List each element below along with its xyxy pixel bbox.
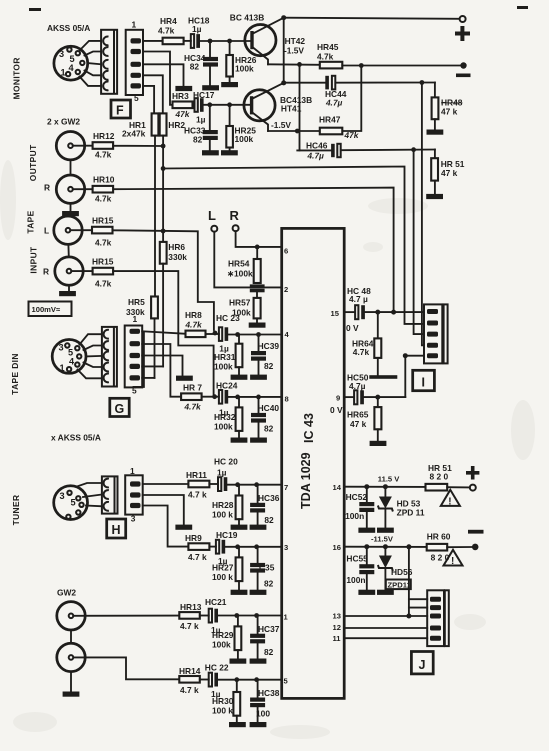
- ground HC37: [250, 659, 267, 664]
- svg-text:47k: 47k: [175, 109, 191, 119]
- terminal -: [472, 544, 479, 551]
- svg-text:HR11: HR11: [186, 470, 207, 480]
- svg-text:100 k: 100 k: [212, 706, 233, 716]
- resistor HR8: [185, 310, 206, 337]
- ground HR32: [231, 438, 248, 443]
- wire HR14 to HC22: [200, 679, 209, 681]
- capacitor HC48 4.7u: [347, 286, 371, 319]
- resistor HR3: [172, 91, 193, 119]
- resistor HR14: [179, 666, 201, 695]
- wire H3 to HR9: [143, 506, 189, 547]
- svg-text:3: 3: [59, 343, 64, 353]
- wire DIN to H pin1: [77, 483, 102, 487]
- wire HC23 to IC pin4: [228, 334, 282, 336]
- ground HD56: [377, 590, 394, 595]
- svg-text:8 2 0: 8 2 0: [430, 472, 449, 482]
- svg-text:82: 82: [264, 361, 274, 371]
- svg-text:1: 1: [61, 68, 66, 78]
- svg-text:3: 3: [59, 49, 64, 59]
- zener diode HD53 ZPD11: [378, 487, 425, 528]
- connector G socket block: [102, 327, 117, 387]
- svg-text:HC24: HC24: [216, 381, 238, 391]
- wire W4 input R to HR1 line: [113, 271, 214, 396]
- node HC55: [364, 544, 369, 549]
- jack output L: [56, 132, 84, 160]
- svg-text:0 V: 0 V: [346, 323, 359, 333]
- svg-text:4: 4: [69, 357, 75, 367]
- wire HC17 to base HT41: [204, 104, 250, 106]
- svg-text:HR10: HR10: [93, 175, 115, 185]
- node: [227, 39, 232, 44]
- capacitor HC37 82: [250, 616, 280, 659]
- wire HC24 to IC pin8: [228, 396, 282, 398]
- svg-text:HC 23: HC 23: [216, 313, 240, 323]
- ground HC36: [250, 525, 267, 530]
- ground HC40: [250, 438, 267, 443]
- wire HR5 down to G pin2: [154, 318, 156, 378]
- capacitor HC35 82: [250, 547, 275, 590]
- svg-text:2: 2: [284, 285, 288, 294]
- wire G5 to HR5 line: [142, 377, 154, 379]
- jack output R: [56, 175, 84, 203]
- connector label I box: [413, 370, 435, 390]
- ground HR26: [221, 82, 238, 87]
- svg-text:HR29: HR29: [212, 630, 234, 640]
- resistor HR27 100k: [212, 547, 242, 590]
- svg-text:4.7k: 4.7k: [95, 279, 112, 289]
- resistor HR12: [93, 131, 115, 160]
- wire HR60 to - terminal: [447, 546, 471, 548]
- svg-text:7: 7: [284, 483, 288, 492]
- transistor HT41: [244, 83, 284, 131]
- svg-text:3: 3: [60, 491, 65, 501]
- svg-text:47 k: 47 k: [350, 419, 367, 429]
- wire HR8 to HC23: [206, 333, 219, 335]
- wire pin11: [344, 637, 427, 639]
- ground G3: [176, 376, 193, 381]
- svg-text:HR14: HR14: [179, 666, 201, 676]
- node emitter branch: [297, 62, 302, 67]
- connector J: [427, 590, 449, 646]
- node HD56: [383, 544, 388, 549]
- svg-text:∗100k: ∗100k: [227, 269, 253, 279]
- resistor HR25 100k: [226, 105, 256, 150]
- ground HR27: [231, 590, 248, 595]
- wire jack to HR15: [70, 229, 92, 231]
- wire HC19 to IC pin3: [225, 546, 282, 548]
- ground GW2: [63, 692, 80, 697]
- wire H1 to HR11: [143, 483, 189, 485]
- node HC37: [254, 613, 259, 618]
- svg-text:100 k: 100 k: [212, 510, 233, 520]
- svg-text:HR5: HR5: [128, 297, 145, 307]
- svg-text:HC21: HC21: [205, 597, 227, 607]
- node collectors: [281, 15, 286, 20]
- svg-text:4.7k: 4.7k: [185, 320, 203, 330]
- svg-text:x AKSS 05/A: x AKSS 05/A: [51, 433, 101, 443]
- wire DIN to H pin2: [83, 495, 102, 498]
- svg-text:2x47k: 2x47k: [122, 129, 146, 139]
- wire jack to HR12: [73, 145, 93, 147]
- svg-text:INPUT: INPUT: [29, 246, 39, 274]
- capacitor HC33 82: [184, 105, 218, 150]
- svg-text:1µ: 1µ: [192, 24, 202, 34]
- node: [208, 39, 213, 44]
- svg-text:HC38: HC38: [258, 688, 280, 698]
- resistor HR57 100k: [229, 292, 261, 323]
- node HC38: [254, 677, 259, 682]
- svg-text:J: J: [419, 658, 426, 672]
- wire F5 to HR2: [143, 86, 154, 114]
- svg-text:ZPD11: ZPD11: [388, 581, 412, 590]
- corner mark top-right: [517, 6, 528, 9]
- svg-text:HC46: HC46: [306, 141, 328, 151]
- svg-text:HC36: HC36: [258, 493, 280, 503]
- wire F3 to ground: [143, 64, 184, 86]
- connector label G box: [110, 398, 129, 416]
- node HC44 branch: [420, 80, 425, 85]
- svg-text:4.7k: 4.7k: [184, 402, 202, 412]
- svg-text:HR57: HR57: [229, 298, 251, 308]
- wire G4 to HR6: [142, 365, 163, 367]
- svg-text:AKSS 05/A: AKSS 05/A: [47, 23, 90, 33]
- svg-text:HR45: HR45: [317, 42, 339, 52]
- ground HC52: [358, 528, 375, 533]
- wire DIN pin4 to F: [85, 71, 102, 76]
- svg-text:14: 14: [333, 483, 342, 492]
- wire emitter HT41 row: [268, 130, 320, 132]
- svg-text:1: 1: [133, 314, 138, 324]
- svg-text:HC 22: HC 22: [205, 663, 229, 673]
- svg-text:3: 3: [284, 543, 288, 552]
- svg-text:4: 4: [69, 63, 75, 73]
- svg-text:3: 3: [131, 514, 136, 524]
- ground H2: [175, 525, 192, 530]
- warning triangle: [444, 550, 463, 567]
- svg-text:1µ: 1µ: [217, 468, 227, 478]
- wire bus W2 HR10 row to 0V node: [113, 188, 394, 313]
- resistor HR47: [319, 115, 360, 140]
- wire collector rail to + terminal: [284, 18, 460, 19]
- resistor HR4: [158, 16, 184, 44]
- svg-text:HR30: HR30: [212, 696, 234, 706]
- svg-text:16: 16: [333, 543, 341, 552]
- svg-text:4.7µ: 4.7µ: [349, 381, 366, 391]
- resistor HR32 100k: [214, 397, 242, 438]
- svg-text:TAPE DIN: TAPE DIN: [10, 353, 20, 395]
- node R: [233, 225, 239, 231]
- wire jack to HR10: [73, 188, 93, 190]
- svg-text:4.7 k: 4.7 k: [180, 685, 199, 695]
- svg-text:GW2: GW2: [57, 588, 76, 598]
- svg-text:100k: 100k: [214, 422, 233, 432]
- terminal -: [460, 62, 466, 68]
- node HC52: [364, 484, 369, 489]
- wire HR13 to HC21: [200, 615, 209, 617]
- plus symbol: [466, 466, 479, 480]
- svg-text:100mV≈: 100mV≈: [32, 305, 61, 314]
- node HR12 join: [161, 144, 166, 149]
- connector F socket block: [101, 30, 117, 94]
- svg-text:4.7k: 4.7k: [158, 26, 175, 36]
- wire DIN pin5 to F: [80, 77, 102, 86]
- ground HC35: [250, 590, 267, 595]
- wire F1 to HR4: [143, 40, 163, 42]
- resistor HR29 100k: [212, 616, 241, 659]
- wire HR11 to HC20: [209, 483, 218, 485]
- resistor HR30 100k: [212, 680, 240, 722]
- node HC46 branch: [411, 147, 416, 152]
- resistor HR65 47k: [347, 397, 381, 441]
- wire HR61 to + terminal: [447, 486, 470, 488]
- box 100mV: [29, 302, 72, 317]
- svg-text:HR12: HR12: [93, 131, 115, 141]
- wire HC44 right: [336, 82, 435, 84]
- capacitor series L: [250, 284, 265, 292]
- svg-text:HC 20: HC 20: [214, 457, 238, 467]
- svg-text:OUTPUT: OUTPUT: [28, 144, 38, 181]
- wire DIN pin1 to F: [80, 41, 101, 50]
- ground HR51: [426, 194, 443, 199]
- wire collector vertical rail: [283, 18, 285, 83]
- resistor HR2: [160, 113, 186, 135]
- svg-text:HR54: HR54: [228, 259, 250, 269]
- svg-text:82: 82: [264, 647, 274, 657]
- svg-text:5: 5: [71, 498, 76, 508]
- wire L to IC pin2: [214, 232, 281, 288]
- svg-text:6: 6: [284, 247, 288, 256]
- resistor HR26 100k: [226, 41, 256, 82]
- ground HR64: [369, 375, 397, 379]
- svg-text:HC55: HC55: [346, 554, 368, 564]
- wire HC50 to I pin5 riser: [364, 396, 405, 398]
- wire jack chain: [70, 160, 72, 175]
- svg-text:HC17: HC17: [193, 90, 215, 100]
- capacitor HC36 82: [250, 485, 280, 525]
- node pin13 row: [406, 614, 411, 619]
- svg-text:HR15: HR15: [92, 257, 114, 267]
- svg-text:MONITOR: MONITOR: [12, 57, 22, 99]
- svg-text:4.7k: 4.7k: [95, 150, 112, 160]
- svg-text:HC40: HC40: [258, 403, 280, 413]
- capacitor HC17 1u: [193, 90, 215, 125]
- wire jack R to ground: [70, 672, 72, 692]
- resistor HR11: [186, 470, 209, 500]
- wire HR4 to HC18: [184, 40, 191, 42]
- resistor HR54 100k: [227, 247, 261, 283]
- node HR30: [234, 677, 239, 682]
- zener diode HD56 ZPD11: [378, 547, 413, 590]
- corner mark top-left: [29, 8, 41, 11]
- wire DIN pin2 to G: [84, 346, 102, 351]
- svg-text:HR15: HR15: [92, 216, 114, 226]
- jack input R: [55, 257, 83, 285]
- wire HC18 to base HT42: [200, 40, 250, 42]
- resistor HR15: [92, 216, 114, 248]
- wire DIN pin1 to G: [80, 334, 102, 344]
- svg-text:HR8: HR8: [185, 310, 202, 320]
- ground HC34: [202, 85, 219, 90]
- svg-text:TUNER: TUNER: [11, 495, 21, 526]
- svg-text:100k: 100k: [235, 134, 254, 144]
- terminal +: [460, 16, 466, 22]
- node I pin5: [403, 353, 408, 358]
- svg-text:HR47: HR47: [319, 115, 341, 125]
- node emitter HT41: [295, 129, 300, 134]
- node HR29: [234, 613, 239, 618]
- wire DIN pin2 to F: [85, 52, 102, 56]
- svg-text:-11.5V: -11.5V: [371, 535, 394, 544]
- capacitor HC23 1u: [216, 313, 240, 354]
- node HC36: [254, 482, 259, 487]
- connector label F box: [111, 100, 131, 118]
- node: [207, 102, 212, 107]
- svg-text:1: 1: [60, 363, 65, 373]
- svg-text:H: H: [112, 523, 121, 537]
- svg-text:82: 82: [264, 579, 274, 589]
- svg-text:ZPD 11: ZPD 11: [397, 508, 425, 518]
- wire G1 to HR8: [142, 331, 185, 334]
- node HC39: [256, 332, 261, 337]
- resistor HR6 330k: [160, 242, 187, 264]
- wire input R to ground: [68, 285, 70, 291]
- svg-text:HR31: HR31: [214, 352, 236, 362]
- resistor HR61 820: [426, 463, 453, 491]
- svg-text:330k: 330k: [168, 252, 187, 262]
- capacitor HC55 100n: [346, 547, 374, 590]
- connector H pin block: [125, 475, 143, 514]
- ground HR65: [370, 441, 387, 446]
- svg-text:HC52: HC52: [346, 492, 368, 502]
- wire W3 input L to HC23 node: [113, 230, 214, 330]
- resistor HR28 100k: [212, 485, 242, 525]
- svg-text:!: !: [451, 556, 454, 567]
- capacitor HC19 1u: [216, 530, 238, 566]
- ground HR30: [229, 722, 246, 727]
- wire pin12: [344, 627, 427, 629]
- wire pin13: [344, 615, 427, 617]
- resistor HR51 47k: [431, 150, 465, 194]
- capacitor HC44 4.7u: [325, 76, 347, 108]
- connector label H box: [107, 519, 126, 538]
- wire pin16 to connector J: [408, 547, 410, 616]
- svg-text:-1.5V: -1.5V: [284, 46, 304, 56]
- resistor HR10: [93, 175, 115, 204]
- capacitor HC22 1u: [205, 663, 229, 700]
- wire emitter branch down: [299, 64, 301, 150]
- node HR54 top: [255, 245, 260, 250]
- svg-text:HR28: HR28: [212, 500, 234, 510]
- wire G2 to HR7: [142, 344, 181, 397]
- wire DIN pin3 to F: [88, 63, 102, 64]
- svg-text:1: 1: [130, 466, 135, 476]
- resistor HR9: [185, 533, 209, 562]
- wire DIN pin3 to G: [86, 355, 102, 358]
- wire HC22 to IC pin5: [218, 679, 282, 681]
- wire jack chain: [70, 630, 72, 643]
- svg-text:100n: 100n: [345, 511, 364, 521]
- node collector HT41: [281, 80, 286, 85]
- node HC40: [256, 395, 261, 400]
- connector G pin block: [125, 326, 143, 388]
- ground HR25: [221, 150, 238, 155]
- svg-text:100n: 100n: [346, 575, 365, 585]
- capacitor HC18 1u: [188, 16, 210, 48]
- svg-text:!: !: [448, 497, 451, 508]
- svg-text:47k: 47k: [344, 130, 360, 140]
- svg-text:C35: C35: [259, 563, 275, 573]
- svg-text:HR 7: HR 7: [183, 383, 202, 393]
- wire jack R to HR14: [73, 657, 179, 679]
- DIN connector monitor: [54, 46, 88, 80]
- warning triangle: [441, 490, 460, 508]
- capacitor HC24 1u: [216, 381, 238, 418]
- capacitor HC20 1u: [214, 457, 238, 492]
- svg-text:L: L: [44, 226, 49, 236]
- node J riser: [406, 544, 411, 549]
- svg-text:100k: 100k: [235, 64, 254, 74]
- resistor HR7: [181, 383, 202, 412]
- wire jack to HR13: [73, 615, 179, 617]
- jack GW2 L: [57, 602, 85, 630]
- resistor HR13: [179, 602, 201, 631]
- svg-text:R: R: [44, 183, 50, 193]
- ground HC39: [250, 375, 267, 380]
- svg-text:100: 100: [256, 709, 270, 719]
- ground HC38: [250, 722, 267, 727]
- svg-text:100k: 100k: [214, 362, 233, 372]
- wire HC44 left to collector rail: [284, 82, 326, 84]
- resistor HR1: [122, 113, 158, 138]
- svg-text:15: 15: [331, 309, 340, 318]
- svg-text:1: 1: [132, 20, 137, 30]
- wire DIN pin4 to G: [84, 363, 102, 368]
- node HR6 top: [161, 229, 166, 234]
- svg-text:9: 9: [336, 394, 340, 403]
- DIN connector tape: [52, 340, 86, 374]
- wire jack to HR16: [71, 270, 92, 272]
- svg-text:4.7k: 4.7k: [317, 52, 334, 62]
- wire HR2 down: [162, 136, 164, 242]
- svg-text:82: 82: [193, 135, 203, 145]
- ground HR31: [231, 375, 248, 380]
- connector F pin block: [126, 30, 143, 95]
- wire HC48 to connector I pin1: [365, 311, 424, 313]
- svg-text:0 V: 0 V: [330, 405, 343, 415]
- svg-text:47 k: 47 k: [441, 107, 458, 117]
- svg-text:4.7k: 4.7k: [95, 238, 112, 248]
- svg-text:4.7µ: 4.7µ: [307, 151, 325, 161]
- connector I: [424, 304, 448, 363]
- svg-text:1µ: 1µ: [196, 115, 206, 125]
- node HC23 left: [213, 331, 218, 336]
- svg-text:F: F: [116, 104, 124, 118]
- wire HR6 down to G pin3: [162, 264, 164, 367]
- ground HR57: [249, 323, 266, 328]
- svg-text:100k: 100k: [212, 640, 231, 650]
- connector label J box: [411, 652, 433, 674]
- node HR64: [375, 310, 380, 315]
- ground F3: [175, 86, 192, 91]
- wire HR9 to HC19: [209, 546, 216, 548]
- wire emitter branch to HC46: [297, 149, 331, 151]
- wire H2 to ground: [143, 495, 184, 525]
- plus symbol: [455, 26, 470, 41]
- wire pin15: [344, 311, 355, 313]
- svg-text:11.5 V: 11.5 V: [378, 475, 400, 484]
- svg-text:HR6: HR6: [168, 242, 185, 252]
- svg-text:TDA 1029: TDA 1029: [299, 452, 313, 509]
